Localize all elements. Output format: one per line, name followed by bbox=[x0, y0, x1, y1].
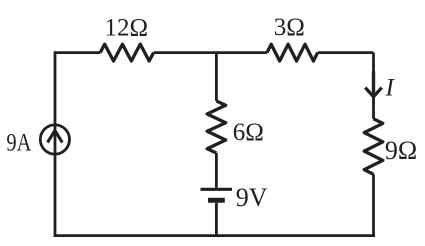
wire middle branch upper bbox=[215, 53, 218, 101]
svg-text:6Ω: 6Ω bbox=[233, 119, 264, 146]
wire top-right segment bbox=[318, 51, 374, 54]
svg-text:9Ω: 9Ω bbox=[385, 136, 417, 165]
wire top-middle segment bbox=[154, 51, 267, 54]
wire middle below battery bbox=[215, 203, 218, 236]
current arrow I head bbox=[365, 88, 381, 97]
battery V1 short plate bbox=[208, 198, 225, 203]
current source I1 circle bbox=[40, 125, 69, 154]
svg-text:12Ω: 12Ω bbox=[105, 15, 149, 42]
wire left vertical bbox=[54, 51, 57, 237]
resistor R2 3Ω zigzag bbox=[267, 44, 318, 61]
wire top-left segment bbox=[55, 51, 100, 54]
wire bottom bbox=[54, 234, 375, 237]
resistor R3 9Ω zigzag bbox=[364, 119, 383, 175]
current arrow I shaft bbox=[372, 72, 375, 93]
svg-text:9A: 9A bbox=[6, 130, 31, 157]
resistor R4 6Ω zigzag bbox=[207, 101, 226, 153]
svg-text:3Ω: 3Ω bbox=[274, 14, 305, 41]
wire right lower vertical bbox=[372, 174, 375, 237]
battery V1 long plate bbox=[201, 188, 233, 191]
wire right upper vertical bbox=[372, 53, 375, 119]
resistor R1 12Ω zigzag bbox=[100, 44, 153, 61]
wire middle between resistor and battery bbox=[215, 153, 218, 188]
current source arrow head bbox=[48, 131, 63, 143]
svg-text:9V: 9V bbox=[236, 183, 268, 212]
svg-text:I: I bbox=[385, 74, 396, 101]
